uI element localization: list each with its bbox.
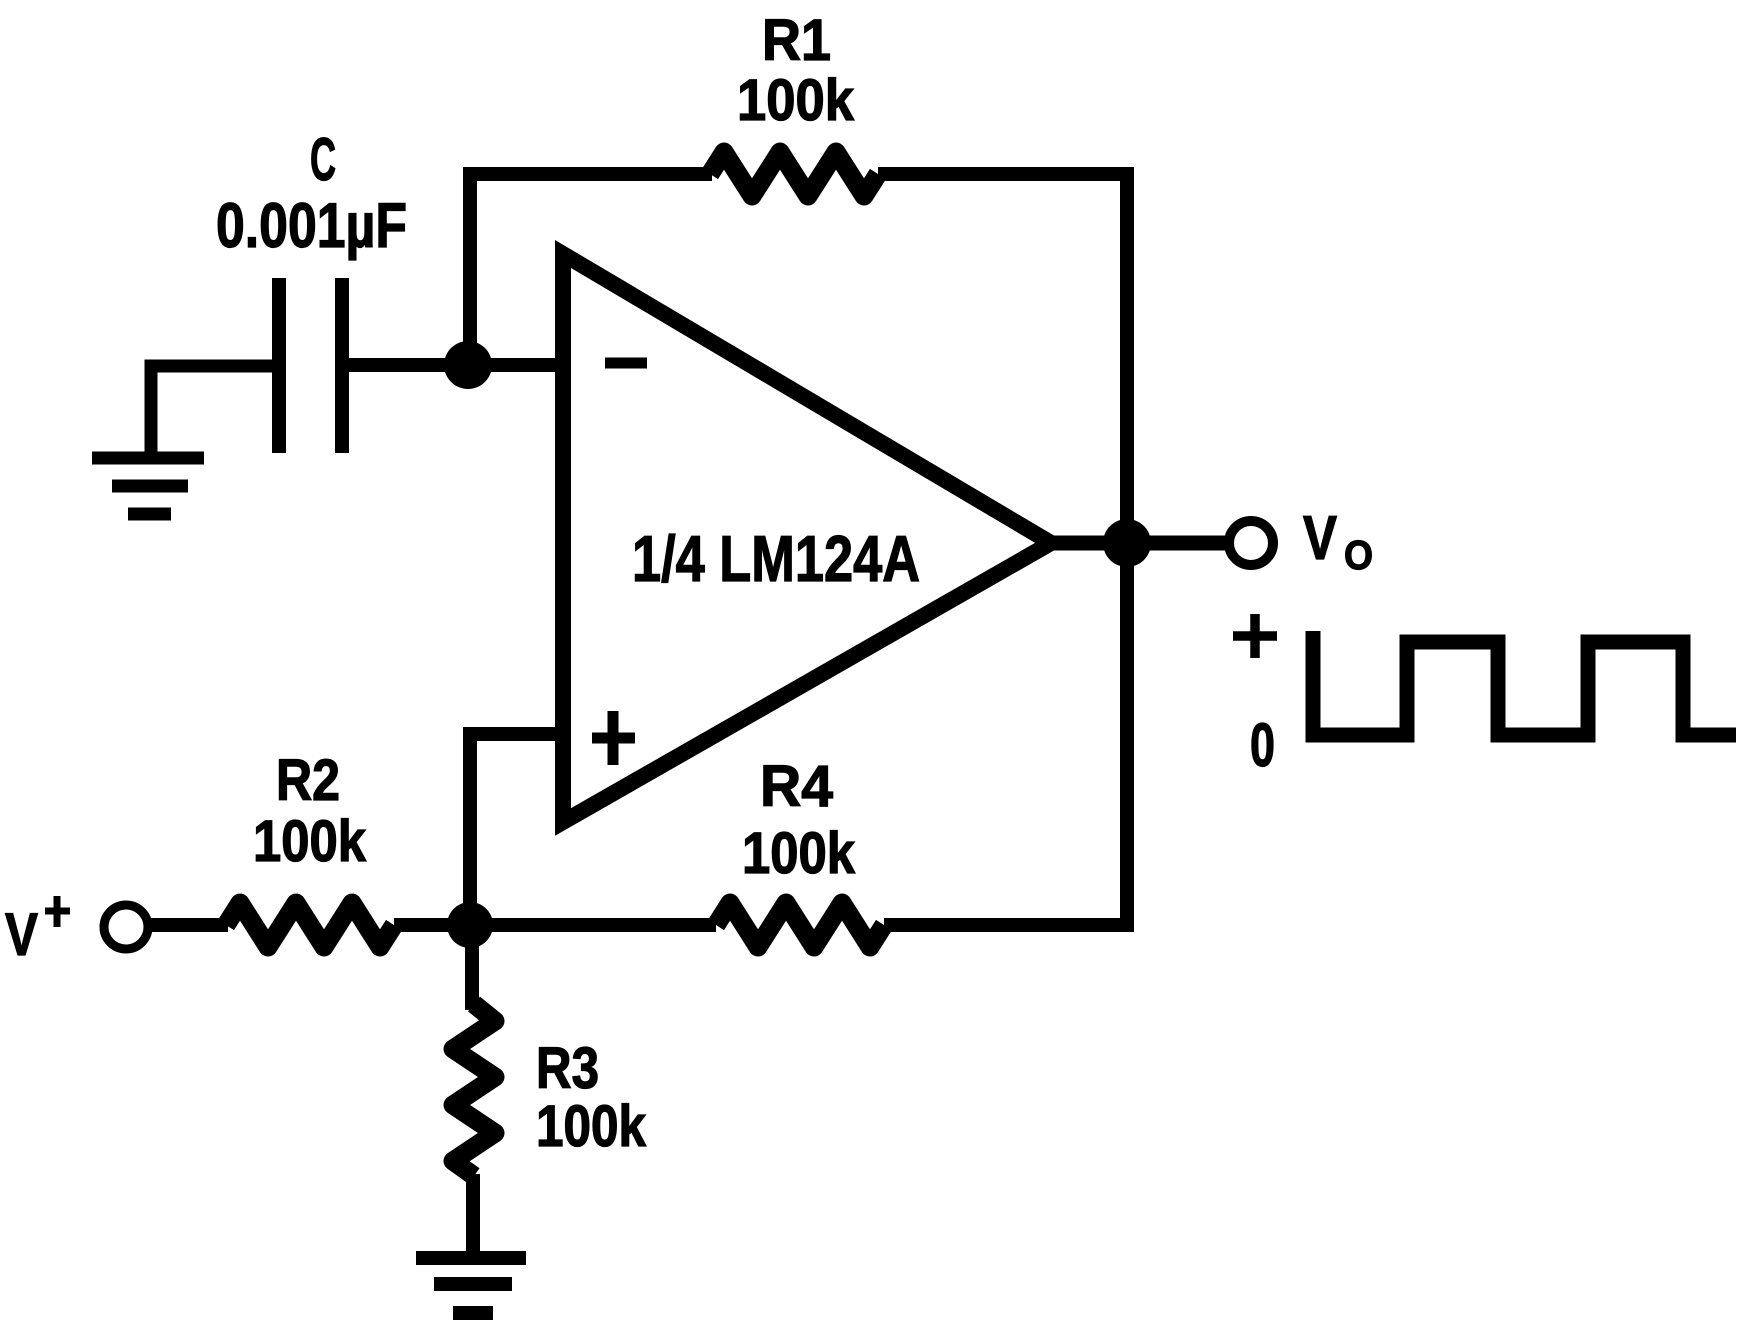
svg-text:V: V [1303, 504, 1337, 573]
resistor R3 [453, 1004, 495, 1176]
ground (R3) [416, 1258, 526, 1313]
waveform: output square wave [1313, 631, 1736, 735]
op-amp non-inverting input symbol (+) [592, 711, 635, 765]
svg-text:1/4 LM124A: 1/4 LM124A [632, 522, 920, 595]
wire: node A up to top feedback rail (left segment) [470, 174, 712, 365]
op-amp U1 triangle (1/4 LM124A) [563, 254, 1051, 822]
wire: R3 to ground [466, 1174, 480, 1252]
wire: op-amp output to terminal VO [1050, 536, 1229, 551]
svg-text:R1: R1 [762, 8, 831, 73]
svg-text:V: V [5, 901, 38, 968]
wire: node B to op-amp non-inverting input [470, 734, 563, 925]
label V+ [5, 896, 70, 968]
label VO [1303, 504, 1373, 578]
op-amp inverting input symbol (-) [605, 358, 647, 369]
terminal VO (open circle) [1229, 521, 1273, 565]
wire: R1 right to output net (top right corner + right vertical) [878, 174, 1127, 925]
wire: C left plate to ground [151, 366, 272, 454]
svg-text:R3: R3 [536, 1036, 599, 1101]
svg-text:C: C [310, 126, 336, 193]
node B junction (non-inverting divider node) [447, 902, 493, 948]
svg-text:100k: 100k [253, 809, 367, 874]
resistor R4 [716, 903, 884, 947]
svg-text:O: O [1344, 532, 1373, 578]
svg-text:100k: 100k [536, 1094, 647, 1159]
svg-text:100k: 100k [742, 821, 856, 886]
svg-text:0: 0 [1250, 711, 1275, 779]
wire: V+ terminal to R2 [148, 918, 228, 932]
svg-text:0.001µF: 0.001µF [216, 191, 407, 261]
terminal V+ (open circle) [104, 905, 148, 949]
resistor R2 [226, 903, 394, 947]
wire: C right plate to inverting input of op-amp [349, 358, 563, 372]
capacitor C plates [279, 278, 342, 453]
wire: node B to R4 [470, 918, 716, 932]
wire: node B down to R3 [465, 925, 479, 1010]
node A junction (inverting input) [444, 341, 492, 389]
svg-text:R2: R2 [276, 748, 340, 813]
junction: output node [1103, 519, 1151, 567]
svg-text:100k: 100k [737, 68, 855, 133]
label + (waveform high level) [1233, 614, 1277, 658]
svg-text:R4: R4 [760, 754, 833, 819]
ground (capacitor C) [92, 458, 204, 514]
wire: R2 to node B [394, 918, 470, 932]
resistor R1 [710, 152, 878, 196]
wire: R4 to output net [884, 918, 1134, 932]
